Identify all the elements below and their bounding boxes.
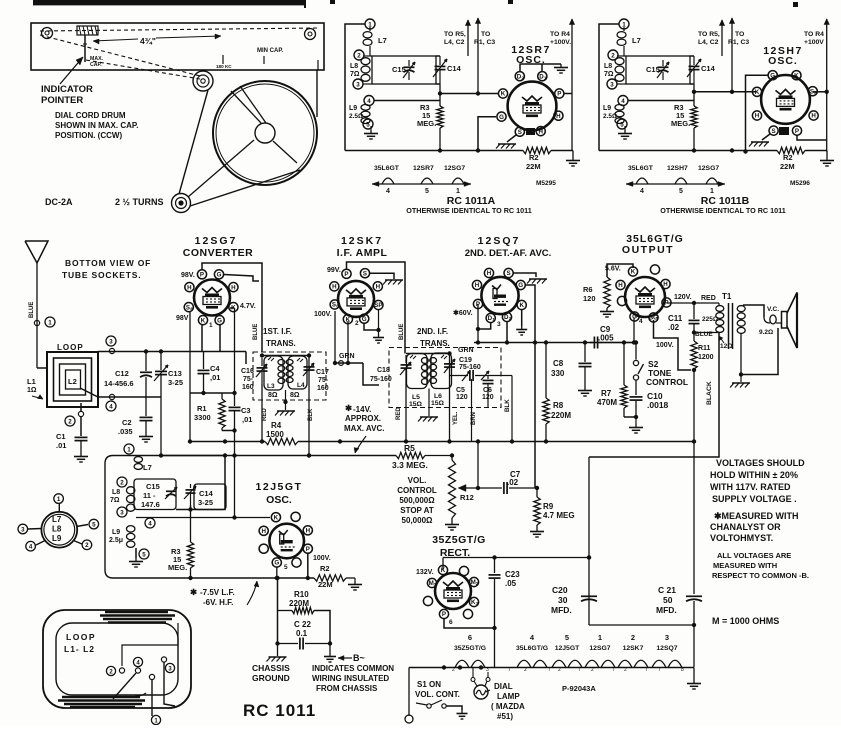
svg-text:160: 160 bbox=[242, 384, 254, 391]
resistor R2 bottom bbox=[313, 577, 315, 579]
svg-text:75-160: 75-160 bbox=[459, 364, 481, 371]
capacitor C20 bbox=[581, 595, 597, 597]
wire D2 lead bbox=[506, 321, 508, 343]
capacitor C11 bbox=[693, 303, 695, 319]
1st IF top wire bbox=[262, 355, 309, 357]
terminal 4 bbox=[109, 394, 114, 399]
loop lead wires bbox=[122, 623, 178, 666]
svg-text:12J5GT: 12J5GT bbox=[256, 481, 303, 493]
wire 12SK7 S6 down bbox=[334, 311, 336, 363]
svg-text:7Ω: 7Ω bbox=[350, 71, 360, 78]
svg-text:2: 2 bbox=[631, 633, 635, 642]
svg-text:120: 120 bbox=[456, 394, 468, 401]
svg-text:C8: C8 bbox=[553, 359, 564, 368]
svg-text:.05: .05 bbox=[505, 579, 517, 588]
svg-text:30: 30 bbox=[558, 595, 568, 605]
svg-text:1: 1 bbox=[544, 75, 547, 80]
svg-text:2.5μ: 2.5μ bbox=[109, 537, 123, 544]
coil L9 bbox=[361, 105, 370, 111]
wire antenna into loop bbox=[37, 367, 47, 369]
capacitor C4 bbox=[203, 352, 205, 370]
wire 1st IF secondary to AVC bus bbox=[308, 356, 310, 456]
loop terminal 3 bbox=[161, 657, 166, 662]
svg-text:7Ω: 7Ω bbox=[604, 71, 614, 78]
svg-text:OUTPUT: OUTPUT bbox=[622, 244, 674, 256]
tube 12SQ7 bbox=[481, 277, 518, 314]
svg-text:DC-2A: DC-2A bbox=[45, 197, 73, 207]
B plus bus right bbox=[298, 441, 694, 443]
svg-text:H: H bbox=[261, 528, 266, 535]
capacitor C10 bbox=[630, 396, 643, 398]
coil L8 bbox=[615, 58, 624, 65]
svg-text:.02: .02 bbox=[507, 478, 519, 487]
socket pin 5 bbox=[77, 525, 89, 527]
voice coil loop bbox=[770, 315, 776, 324]
capacitor C5 bbox=[450, 375, 469, 377]
capacitor C1 bbox=[75, 436, 88, 438]
wire BRN riser bbox=[471, 379, 473, 442]
svg-text:MEG.: MEG. bbox=[671, 119, 690, 128]
svg-text:L5: L5 bbox=[412, 394, 420, 401]
svg-text:3: 3 bbox=[497, 321, 501, 328]
svg-text:OSC.: OSC. bbox=[266, 494, 292, 506]
dashed dial cord runs bbox=[40, 28, 318, 31]
svg-text:2: 2 bbox=[521, 75, 524, 80]
svg-text:POINTER: POINTER bbox=[41, 95, 83, 106]
wire C5 net down to bus bbox=[511, 376, 513, 442]
svg-text:G: G bbox=[217, 317, 222, 324]
svg-text:S: S bbox=[518, 129, 522, 136]
resistor R10 loop bbox=[277, 578, 279, 611]
svg-text:APPROX.: APPROX. bbox=[345, 414, 381, 423]
1ST IF TRANS dashed box bbox=[253, 352, 326, 400]
wire terminal1 to left rail bbox=[599, 24, 619, 151]
wire cathode net down to AVC bus bbox=[234, 431, 236, 456]
wire G top to rail bbox=[746, 75, 769, 151]
svg-text:98V: 98V bbox=[176, 315, 189, 322]
R12 wiper arrow bbox=[462, 487, 478, 489]
wire box top to C14 bbox=[690, 55, 694, 57]
svg-text:K: K bbox=[794, 72, 799, 79]
svg-text:+100V.: +100V. bbox=[550, 39, 571, 46]
svg-text:1: 1 bbox=[492, 317, 495, 322]
svg-text:-14V.: -14V. bbox=[353, 405, 371, 414]
svg-text:G: G bbox=[499, 114, 504, 121]
svg-text:TRANS.: TRANS. bbox=[420, 339, 450, 348]
svg-text:K: K bbox=[501, 91, 506, 98]
antenna bbox=[25, 241, 48, 263]
svg-text:YEL.: YEL. bbox=[453, 411, 459, 425]
terminal 2 osc bbox=[117, 477, 127, 487]
svg-text:2.5Ω: 2.5Ω bbox=[603, 113, 617, 120]
svg-text:4: 4 bbox=[639, 318, 643, 325]
wire filter right riser bbox=[693, 442, 695, 595]
socket pin 4 bbox=[36, 541, 45, 546]
svg-text:VOLTAGES SHOULD: VOLTAGES SHOULD bbox=[716, 458, 805, 468]
indicator pointer hatched slider bbox=[77, 26, 98, 35]
resistor R9 bbox=[536, 488, 538, 497]
svg-text:3: 3 bbox=[665, 633, 669, 642]
svg-text:4: 4 bbox=[29, 544, 33, 551]
indicator pointer arrow and label bbox=[60, 57, 83, 84]
wire K right to cathode net bbox=[230, 307, 235, 309]
svg-text:75-160: 75-160 bbox=[370, 376, 392, 383]
svg-text:R7: R7 bbox=[601, 389, 612, 398]
resistor R2 bbox=[523, 147, 551, 153]
coil L8 osc bbox=[126, 487, 134, 494]
wire bottom bus bbox=[599, 150, 777, 152]
svg-text:C14: C14 bbox=[199, 489, 214, 498]
wire R5 to R12 bbox=[425, 455, 452, 457]
svg-text:5: 5 bbox=[92, 521, 96, 528]
svg-text:DIAL: DIAL bbox=[494, 682, 513, 691]
page crop marks bbox=[508, 0, 513, 4]
svg-text:.0018: .0018 bbox=[647, 400, 669, 410]
svg-text:100V.: 100V. bbox=[313, 555, 331, 562]
svg-text:,01: ,01 bbox=[242, 415, 252, 424]
svg-text:C19: C19 bbox=[459, 357, 472, 364]
to R5 L4 C2 arrow bbox=[721, 20, 723, 56]
wire S6 to +100V rail bbox=[813, 91, 827, 93]
svg-text:MEG.: MEG. bbox=[168, 563, 187, 572]
wire P plate to T1 bbox=[667, 302, 720, 304]
wire loop top row grid line bbox=[98, 351, 246, 353]
wire R1 C3 bottom join bbox=[222, 430, 235, 432]
svg-text:C18: C18 bbox=[377, 367, 390, 374]
svg-text:M = 1000 OHMS: M = 1000 OHMS bbox=[712, 616, 779, 626]
resistor R6 bbox=[604, 277, 610, 308]
terminal 4 osc bbox=[145, 518, 155, 528]
svg-text:OSC.: OSC. bbox=[768, 55, 798, 67]
svg-text:C15: C15 bbox=[392, 65, 406, 74]
capacitor C7 bbox=[503, 482, 505, 494]
wire G right to volume riser bbox=[526, 285, 536, 488]
ground at R2 bbox=[572, 151, 574, 158]
corner pulley left bbox=[42, 28, 53, 39]
svg-text:3: 3 bbox=[476, 601, 479, 606]
terminal 4 circle bbox=[364, 96, 374, 106]
wire S shield to chassis ground bbox=[514, 273, 537, 277]
svg-text:TO R4: TO R4 bbox=[804, 31, 824, 38]
svg-text:35L6GT/G: 35L6GT/G bbox=[516, 645, 548, 652]
svg-text:15Ω: 15Ω bbox=[409, 401, 423, 408]
T1 core bbox=[728, 303, 730, 349]
svg-text:2ND. DET.-AF. AVC.: 2ND. DET.-AF. AVC. bbox=[465, 248, 552, 259]
svg-text:TO R5,: TO R5, bbox=[698, 31, 720, 38]
svg-text:TO R4: TO R4 bbox=[550, 31, 570, 38]
svg-text:P: P bbox=[795, 128, 799, 135]
svg-text:120: 120 bbox=[482, 394, 494, 401]
loop assembly outline bbox=[43, 610, 191, 708]
loop winding scribble bottom bbox=[62, 696, 140, 699]
capacitor C15 osc bbox=[166, 490, 176, 492]
rect top bus bbox=[443, 557, 589, 559]
capacitor C23 bbox=[494, 558, 496, 574]
svg-text:C5: C5 bbox=[456, 387, 465, 394]
svg-text:.005: .005 bbox=[598, 334, 614, 343]
wire filament right to ground bbox=[693, 668, 695, 681]
wire K to R6 bbox=[607, 264, 633, 277]
svg-text:4: 4 bbox=[640, 188, 644, 195]
wire 12J5 grid G to box bottom bbox=[276, 567, 278, 578]
resistor R11 bbox=[693, 333, 695, 342]
svg-text:OTHERWISE IDENTICAL TO RC 1011: OTHERWISE IDENTICAL TO RC 1011 bbox=[406, 206, 531, 215]
wire BLACK return bbox=[589, 333, 719, 458]
capacitor C14 variable bbox=[693, 56, 695, 65]
terminal 1 circle bbox=[365, 19, 375, 29]
svg-text:✱: ✱ bbox=[345, 403, 353, 413]
svg-text:2ND. I.F.: 2ND. I.F. bbox=[417, 327, 448, 336]
wire K lead bbox=[440, 93, 498, 95]
wire box bottom to C14 bbox=[690, 83, 694, 85]
svg-text:MFD.: MFD. bbox=[551, 605, 572, 615]
svg-text:35Z5GT/G: 35Z5GT/G bbox=[454, 645, 486, 652]
capacitor C15 bbox=[408, 60, 410, 66]
svg-text:L1: L1 bbox=[27, 377, 36, 386]
svg-text:22M: 22M bbox=[526, 162, 541, 171]
terminal 3 bbox=[109, 348, 114, 353]
svg-text:35Z5GT/G: 35Z5GT/G bbox=[432, 534, 486, 546]
wire filament left to S1 bbox=[408, 668, 410, 717]
svg-text:6: 6 bbox=[468, 633, 472, 642]
wire G lead down bbox=[478, 117, 496, 151]
svg-text:R9: R9 bbox=[543, 502, 554, 511]
svg-text:.035: .035 bbox=[118, 427, 133, 436]
svg-text:H: H bbox=[475, 282, 480, 289]
wire S to chassis ground bbox=[762, 134, 770, 140]
wire 1st IF primary return to B plus bus bbox=[261, 384, 263, 442]
svg-text:35L6GT: 35L6GT bbox=[374, 165, 400, 172]
svg-text:L7: L7 bbox=[378, 36, 387, 45]
svg-text:C23: C23 bbox=[505, 570, 520, 579]
to R1 C3 arrow bbox=[731, 18, 733, 94]
svg-text:50: 50 bbox=[663, 595, 673, 605]
svg-text:CHASSIS: CHASSIS bbox=[252, 663, 290, 673]
svg-text:LOOP: LOOP bbox=[57, 343, 84, 352]
wire cathode row bbox=[190, 392, 235, 394]
svg-text:12SQ7: 12SQ7 bbox=[656, 645, 677, 652]
svg-text:LOOP: LOOP bbox=[66, 632, 96, 642]
to R5 L4 C2 arrow bbox=[467, 20, 469, 56]
wire filter left riser bbox=[588, 457, 590, 625]
svg-text:WIRING INSULATED: WIRING INSULATED bbox=[312, 674, 389, 683]
svg-text:G: G bbox=[518, 282, 523, 289]
dial scale panel bbox=[31, 23, 324, 70]
svg-text:6: 6 bbox=[190, 306, 193, 311]
svg-text:GRN: GRN bbox=[458, 347, 474, 354]
svg-text:R1: R1 bbox=[197, 404, 207, 413]
switch S1 contacts bbox=[400, 706, 425, 710]
svg-text:TRANS.: TRANS. bbox=[266, 339, 296, 348]
svg-text:C1: C1 bbox=[56, 432, 66, 441]
svg-text:1: 1 bbox=[434, 582, 437, 587]
svg-text:GRN: GRN bbox=[339, 353, 355, 360]
svg-text:7: 7 bbox=[645, 667, 648, 673]
svg-text:22M: 22M bbox=[780, 162, 795, 171]
wire loop bottom row bbox=[80, 388, 161, 397]
svg-text:BOTTOM VIEW OF: BOTTOM VIEW OF bbox=[65, 258, 151, 268]
C15 box osc bbox=[134, 479, 176, 510]
svg-text:100V.: 100V. bbox=[314, 311, 332, 318]
svg-text:220M: 220M bbox=[551, 411, 571, 420]
svg-text:L1- L2: L1- L2 bbox=[64, 644, 95, 654]
svg-text:-6V. H.F.: -6V. H.F. bbox=[203, 598, 233, 607]
2nd IF center ground bbox=[428, 389, 430, 417]
svg-text:12SG7: 12SG7 bbox=[589, 645, 610, 652]
svg-text:K: K bbox=[519, 302, 524, 309]
svg-text:-7.5V L.F.: -7.5V L.F. bbox=[200, 588, 235, 597]
svg-text:2: 2 bbox=[452, 667, 455, 673]
socket bottom view L7 L8 L9 bbox=[41, 512, 77, 548]
wire C9 to 35L6 grid bbox=[602, 342, 634, 344]
svg-text:C12: C12 bbox=[115, 369, 129, 378]
capacitor C8 bbox=[584, 343, 586, 363]
tube 35L6 output bbox=[625, 277, 665, 317]
svg-text:R12: R12 bbox=[460, 493, 474, 502]
svg-text:H: H bbox=[556, 113, 561, 120]
svg-text:12SQ7: 12SQ7 bbox=[478, 235, 521, 247]
bottom pulley bbox=[172, 194, 191, 213]
wire T1 secondary to voice coil bbox=[743, 305, 764, 317]
svg-text:RESPECT TO COMMON -B.: RESPECT TO COMMON -B. bbox=[712, 571, 809, 580]
svg-text:H: H bbox=[811, 113, 816, 120]
drum cord right side bbox=[316, 70, 318, 117]
svg-text:GROUND: GROUND bbox=[252, 673, 290, 683]
1st IF primary L3 bbox=[264, 356, 283, 390]
svg-text:H: H bbox=[663, 281, 668, 288]
svg-text:75-: 75- bbox=[243, 376, 254, 383]
svg-text:G: G bbox=[274, 560, 279, 567]
svg-text:K: K bbox=[201, 317, 206, 324]
svg-text:50,000Ω: 50,000Ω bbox=[402, 516, 433, 525]
svg-text:C 22: C 22 bbox=[294, 620, 311, 629]
svg-text:L4, C2: L4, C2 bbox=[698, 39, 719, 46]
svg-text:SUPPLY VOLTAGE .: SUPPLY VOLTAGE . bbox=[712, 494, 797, 504]
svg-text:2: 2 bbox=[85, 542, 89, 549]
ground at R2 bbox=[826, 151, 828, 158]
svg-text:G: G bbox=[217, 272, 222, 279]
ground below L9 bbox=[370, 126, 372, 130]
capacitor C13 variable bbox=[160, 352, 162, 371]
oscillator box outline bbox=[105, 456, 314, 579]
svg-text:H: H bbox=[487, 270, 492, 277]
svg-text:SHOWN IN MAX. CAP.: SHOWN IN MAX. CAP. bbox=[55, 121, 138, 130]
svg-text:RED: RED bbox=[262, 408, 268, 421]
svg-text:L4, C2: L4, C2 bbox=[444, 39, 465, 46]
corner pulley right bbox=[305, 29, 316, 40]
dial drum bbox=[213, 81, 317, 185]
loop terminal 2 bbox=[119, 668, 124, 673]
svg-text:P-92043A: P-92043A bbox=[562, 684, 596, 693]
svg-text:L8: L8 bbox=[112, 489, 120, 496]
speaker cone bbox=[787, 293, 797, 349]
svg-text:H: H bbox=[376, 284, 381, 291]
svg-text:L8: L8 bbox=[604, 63, 612, 70]
svg-text:15Ω: 15Ω bbox=[431, 400, 445, 407]
wire coil stubs bbox=[363, 55, 372, 57]
AVC bus bbox=[161, 455, 225, 457]
resistor R3 bbox=[439, 84, 441, 106]
svg-text:S: S bbox=[363, 270, 367, 277]
resistor R8 bbox=[545, 343, 547, 399]
svg-text:#51): #51) bbox=[497, 712, 513, 721]
svg-text:7: 7 bbox=[658, 667, 661, 673]
wire 35Z5 P to filament bbox=[444, 618, 495, 628]
svg-text:CONVERTER: CONVERTER bbox=[183, 247, 253, 259]
svg-text:RC 1011: RC 1011 bbox=[243, 701, 316, 720]
svg-text:2: 2 bbox=[357, 53, 361, 60]
svg-text:.02: .02 bbox=[668, 323, 680, 332]
dimension 4-3/4 inches bbox=[93, 39, 138, 41]
filament coil 12SK7 bbox=[618, 660, 632, 667]
svg-text:DIAL CORD DRUM: DIAL CORD DRUM bbox=[55, 111, 126, 120]
svg-text:4¾": 4¾" bbox=[140, 36, 156, 46]
svg-text:H: H bbox=[332, 284, 337, 291]
dial lamp bbox=[474, 685, 488, 699]
svg-text:147.6: 147.6 bbox=[141, 500, 160, 509]
wire S to chassis ground bbox=[507, 135, 516, 142]
svg-text:R1, C3: R1, C3 bbox=[728, 39, 749, 46]
tube lineup bracket RC 1011B bbox=[626, 183, 725, 185]
svg-text:P: P bbox=[306, 546, 310, 553]
svg-text:L4: L4 bbox=[297, 382, 305, 389]
svg-text:R10: R10 bbox=[294, 590, 309, 599]
svg-text:H: H bbox=[618, 282, 623, 289]
speaker former bbox=[782, 312, 788, 329]
svg-text:✱60V.: ✱60V. bbox=[453, 309, 473, 317]
capacitor C6 bbox=[487, 376, 489, 380]
padder box C15 bbox=[372, 56, 436, 84]
tube 12SK7 bbox=[338, 281, 374, 317]
cord bottom pulley to drum bbox=[190, 170, 300, 206]
capacitor C2 bbox=[145, 397, 147, 416]
svg-text:✱: ✱ bbox=[190, 587, 198, 597]
wire grid of 12SK7 bbox=[335, 362, 363, 364]
terminal 3 circle bbox=[353, 79, 363, 89]
resistor R5 bbox=[396, 452, 425, 458]
svg-text:1200: 1200 bbox=[698, 354, 714, 361]
svg-text:MEG.: MEG. bbox=[417, 119, 436, 128]
svg-text:4.7V.: 4.7V. bbox=[240, 303, 256, 310]
wire bus to wiper riser bbox=[477, 442, 479, 489]
ground R2 bottom bbox=[354, 578, 356, 581]
svg-text:B~: B~ bbox=[353, 653, 365, 663]
tube 12SH7 bbox=[761, 75, 810, 124]
wire L9 row bbox=[374, 100, 440, 102]
svg-text:H: H bbox=[187, 284, 192, 291]
wiper wire to C7 bbox=[478, 487, 502, 489]
svg-text:L7: L7 bbox=[52, 515, 62, 524]
svg-text:STOP AT: STOP AT bbox=[400, 506, 434, 515]
svg-text:C13: C13 bbox=[168, 369, 182, 378]
svg-text:2: 2 bbox=[611, 53, 615, 60]
svg-text:3-25: 3-25 bbox=[168, 378, 183, 387]
svg-text:CHANALYST OR: CHANALYST OR bbox=[710, 522, 781, 532]
+100V rail down to bus bbox=[571, 94, 573, 151]
svg-text:98V.: 98V. bbox=[181, 272, 195, 279]
svg-text:500,000Ω: 500,000Ω bbox=[399, 496, 435, 505]
socket pin 1 bbox=[58, 504, 60, 512]
svg-text:ALL VOLTAGES ARE: ALL VOLTAGES ARE bbox=[717, 551, 791, 560]
drum spokes bbox=[231, 91, 261, 123]
svg-text:TO: TO bbox=[735, 31, 744, 38]
svg-text:+100V: +100V bbox=[804, 39, 824, 46]
svg-text:7Ω: 7Ω bbox=[110, 497, 120, 504]
svg-text:9.2Ω: 9.2Ω bbox=[759, 329, 773, 336]
svg-text:6: 6 bbox=[336, 304, 339, 309]
svg-text:CONTROL: CONTROL bbox=[397, 486, 437, 495]
svg-text:H: H bbox=[538, 128, 543, 135]
